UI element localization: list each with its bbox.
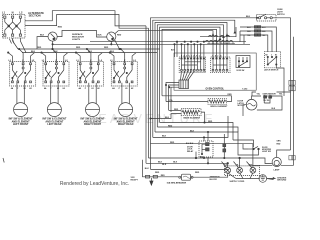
svg-text:LEFT FRONT: LEFT FRONT (13, 123, 29, 126)
wire ERC inner link right (213, 64, 227, 66)
wire drops into enclosure left (175, 42, 178, 57)
terminal block TB2 (alternate section) (3, 15, 26, 39)
svg-text:BLK: BLK (158, 162, 163, 164)
svg-text:RED: RED (168, 125, 173, 127)
svg-text:RED: RED (195, 172, 200, 174)
wire latch motor bottom (243, 105, 246, 116)
svg-text:4A: 4A (112, 87, 115, 90)
wire y41.7 to J2 (239, 31, 241, 42)
switch S8 (door switch in control) (236, 56, 250, 68)
wire run y122.5 (160, 123, 233, 141)
svg-text:GROUND: GROUND (277, 180, 287, 182)
svg-text:BLK BLK: BLK BLK (186, 143, 194, 145)
svg-text:BLK: BLK (246, 16, 251, 18)
svg-text:LEFT REAR: LEFT REAR (47, 123, 61, 126)
svg-text:BLK: BLK (40, 35, 45, 37)
inline connector right rails (289, 156, 295, 160)
wire bake right lead (201, 112, 205, 122)
wire diagonals into screws (222, 162, 252, 168)
wire N feed to bus (13, 38, 18, 49)
junction (18, 48, 19, 49)
svg-text:RED: RED (161, 175, 166, 177)
svg-text:GRN: GRN (277, 141, 282, 143)
svg-text:BLK: BLK (165, 117, 170, 119)
wire J2 left leads (240, 27, 254, 35)
svg-text:NC: NC (275, 55, 278, 57)
inline connector pair right of relay (223, 134, 226, 158)
wire lamp bottom horizontal (252, 37, 293, 166)
wire supply diagonals (228, 173, 260, 179)
pin P3 ERC (187, 44, 189, 71)
junction (176, 41, 177, 42)
junction (41, 52, 42, 53)
svg-text:BGOVYWRT: BGOVYWRT (181, 55, 201, 57)
svg-text:LAMP: LAMP (274, 169, 281, 172)
relay K1 (door lock relay) (199, 141, 213, 157)
svg-text:L2: L2 (19, 11, 23, 15)
junction (86, 48, 87, 49)
junction (8, 52, 9, 53)
svg-text:RED: RED (58, 27, 63, 29)
wire element lead right (57, 83, 59, 104)
wire nested loop 4 (157, 25, 223, 127)
svg-text:RED: RED (155, 172, 160, 174)
wire light switch to right rail (272, 18, 290, 150)
wire nested loop 1 (151, 18, 257, 142)
receptacle J3 (146, 175, 158, 185)
svg-text:N: N (12, 11, 14, 15)
surface element E2 (47, 103, 61, 117)
pin PR4 ERC (223, 57, 225, 71)
svg-text:RED: RED (174, 109, 179, 111)
ERC connector box right (211, 57, 230, 73)
wire feed P S2 (52, 49, 56, 63)
pin P1 ERC (181, 44, 183, 71)
pin PR5 ERC (226, 57, 228, 71)
circuit breaker CB1 (15A mini-breaker) (179, 174, 193, 180)
connector J2 (harness BLK/RED/YEL) (254, 26, 260, 37)
pin PR3 ERC (219, 57, 221, 71)
junction (75, 52, 76, 53)
svg-text:L1: L1 (8, 60, 11, 62)
svg-text:RED: RED (277, 144, 281, 146)
pin P4 ERC (190, 44, 192, 71)
wire feed L1 S1 (8, 53, 12, 63)
svg-text:4A: 4A (11, 87, 14, 90)
svg-text:15A MINI-BREAKER: 15A MINI-BREAKER (167, 182, 187, 185)
svg-text:RED: RED (170, 142, 175, 144)
wire J2 right leads (261, 27, 277, 52)
wire cross y36.7 (200, 27, 236, 37)
svg-text:BLK: BLK (173, 161, 178, 163)
switch S6 (latch switch) (264, 52, 280, 68)
junction (203, 157, 204, 158)
junction (109, 52, 110, 53)
junction (165, 84, 166, 85)
junction (227, 163, 229, 165)
switch S7 (door mounted light switch) (248, 146, 259, 149)
chassis ground G1 (259, 175, 275, 183)
svg-text:BAKE ELEMENT: BAKE ELEMENT (184, 117, 201, 120)
wire nested loop 3 (155, 23, 227, 133)
svg-text:LATCH SWITCH: LATCH SWITCH (264, 69, 279, 72)
wire feed L1 S4 (110, 53, 114, 63)
wire run y127 (157, 127, 238, 132)
svg-text:L1: L1 (76, 60, 79, 62)
svg-text:H2: H2 (63, 88, 65, 90)
wire run y151.6 (195, 152, 197, 158)
connector pairs oven sensor (264, 96, 272, 99)
terminal block TB1 (225, 166, 260, 176)
svg-text:P: P (85, 88, 87, 90)
wire nested loop 2 (153, 20, 235, 137)
wire bus BLK y52.6 (22, 52, 157, 54)
infinite switch S4 (111, 62, 137, 86)
svg-text:P: P (17, 88, 19, 90)
wire feed L1 S2 (42, 53, 46, 63)
svg-text:4A: 4A (44, 87, 47, 90)
junction (169, 87, 170, 88)
wire breaker out (193, 173, 228, 177)
svg-text:Rendered by LeadVenture, Inc.: Rendered by LeadVenture, Inc. (60, 181, 129, 187)
svg-text:LIGHT SW: LIGHT SW (262, 151, 271, 153)
wire element lead right (95, 83, 97, 104)
svg-text:T-1/50: T-1/50 (242, 89, 247, 91)
wire DS1 bottom (52, 41, 54, 49)
wire run y169.4 (151, 168, 228, 170)
surface element E4 (119, 103, 133, 117)
junction (207, 131, 208, 132)
wire feed L2 S2 (64, 53, 68, 63)
wire DS1 to DS3 (57, 31, 106, 38)
oven control enclosure (174, 53, 256, 90)
svg-text:OVEN CONTROL: OVEN CONTROL (206, 89, 225, 91)
wire bus upper y41.7 (90, 41, 246, 43)
wire supply stubs (10, 39, 15, 44)
svg-text:H2: H2 (97, 88, 99, 90)
wire run y132 (155, 132, 259, 155)
svg-text:RED: RED (37, 47, 42, 49)
wire L1 feed staircase to bundle (25, 11, 146, 26)
svg-text:YEL: YEL (279, 93, 283, 95)
junction (111, 44, 112, 45)
wire receptacle feed (143, 160, 179, 177)
junction (52, 48, 53, 49)
svg-text:L1: L1 (2, 11, 6, 15)
svg-text:BLK: BLK (98, 35, 103, 37)
wire broil left lead (166, 101, 208, 103)
wire feed P S4 (121, 49, 125, 63)
wire relay feeds top (204, 132, 208, 141)
wire y44.3 to J2 (243, 35, 245, 44)
wire broil right lead (162, 96, 232, 102)
wire latch sw to door latch (276, 65, 284, 96)
wire bake left lead RED (169, 110, 182, 112)
infinite switch S3 (78, 62, 104, 86)
wire ERC inner link left 2 (185, 61, 201, 63)
svg-text:BLK: BLK (145, 168, 150, 170)
junction (174, 44, 175, 45)
svg-text:BLK: BLK (31, 51, 36, 53)
wire to DS1 left (37, 37, 48, 49)
junction (52, 44, 53, 45)
indicator light DS1 (left surface indicator) (48, 32, 57, 41)
wire door latch loop (252, 96, 282, 110)
wire hops row 2 (208, 43, 235, 44)
junction (150, 118, 151, 119)
svg-text:H1: H1 (125, 88, 127, 90)
svg-text:BLK: BLK (190, 130, 195, 132)
wire run y158 (149, 158, 272, 168)
pin P2 ERC (184, 44, 186, 71)
wire sensor pair stubs (264, 95, 270, 103)
junction (224, 157, 225, 158)
wire feed P S3 (87, 49, 91, 63)
svg-text:L1: L1 (110, 60, 113, 62)
wire ERC inner link left (182, 64, 198, 66)
wire feed L2 S1 (31, 53, 35, 63)
wire relay bottoms (204, 157, 208, 163)
wire lamp top (277, 150, 291, 157)
wire door sw feeds (233, 140, 254, 149)
svg-text:RED: RED (104, 47, 109, 49)
wire J1 feeds from ERC (181, 71, 195, 80)
wire run y137.4 (153, 116, 228, 137)
svg-text:BLK: BLK (162, 164, 167, 166)
pin P6 ERC (197, 44, 199, 71)
connector arrows on nested drops (212, 32, 235, 42)
svg-text:LIGHTS: LIGHTS (72, 39, 81, 41)
wire feed L1 S3 (76, 53, 80, 63)
wire element lead left (121, 83, 123, 104)
svg-text:BRYW: BRYW (212, 55, 223, 57)
pin PR1 ERC (212, 57, 214, 71)
svg-text:SUPPLY CORD: SUPPLY CORD (230, 181, 245, 183)
svg-text:H1: H1 (91, 88, 93, 90)
svg-text:4A: 4A (79, 87, 82, 90)
wire element lead left (16, 83, 18, 104)
pin PR2 ERC (216, 57, 218, 71)
svg-text:BROIL ELEMENT: BROIL ELEMENT (211, 106, 229, 108)
svg-text:H2: H2 (29, 88, 31, 90)
svg-text:YEL: YEL (257, 93, 261, 95)
wire feed P S1 (19, 49, 23, 63)
wire L2 feed staircase to bundle (25, 15, 149, 29)
wire nested loop 6 (162, 29, 217, 95)
indicator light DS3 (right surface indicator) (107, 32, 116, 41)
infinite switch S2 (43, 62, 69, 86)
infinite switch S1 (10, 62, 36, 86)
wire bundle vertical L1 (145, 26, 147, 163)
surface element E3 (86, 103, 100, 117)
wire bus upper y44.3 (53, 43, 250, 45)
svg-text:BLOCK: BLOCK (210, 179, 218, 181)
wire DS3 bottom stub (110, 41, 112, 44)
svg-text:BLK: BLK (162, 136, 167, 138)
wire L feed to bus (20, 38, 26, 53)
svg-text:MOTOR: MOTOR (238, 105, 246, 107)
svg-text:DOOR SW: DOOR SW (237, 70, 245, 72)
wire DS3 to bus diagonal (115, 40, 120, 49)
junction (195, 157, 197, 159)
junction (119, 48, 120, 49)
bake element R1 (181, 109, 201, 116)
svg-text:RED: RED (76, 47, 81, 49)
svg-text:P: P (119, 88, 121, 90)
wire riser x151 (150, 144, 152, 170)
connector J1 (ribbon) (179, 80, 189, 89)
junction (120, 48, 121, 49)
svg-text:SWITCH: SWITCH (277, 14, 285, 16)
wire element lead right (128, 83, 130, 104)
svg-text:RECEPT: RECEPT (131, 179, 139, 181)
junction (207, 163, 208, 164)
svg-text:RIGHT FRONT: RIGHT FRONT (84, 123, 102, 126)
surface element E1 (14, 103, 28, 117)
wire bus RED y49 (18, 48, 160, 50)
wire bake left lead BLK (151, 114, 182, 119)
svg-text:RIGHT REAR: RIGHT REAR (118, 123, 134, 126)
junction (239, 157, 241, 159)
door latch motor M1 (246, 99, 257, 110)
wire run y143.7 (151, 142, 253, 168)
svg-text:H2: H2 (131, 88, 133, 90)
wire element lead left (88, 83, 90, 104)
svg-text:RED: RED (117, 35, 122, 37)
junction (203, 137, 204, 138)
oven sensor inline connectors (289, 80, 295, 91)
wire J1 left leads (166, 83, 179, 113)
pin P7 ERC (200, 44, 202, 71)
svg-text:SECTION: SECTION (29, 14, 41, 18)
wire element lead left (50, 83, 52, 104)
wire bundle vertical L2 (148, 28, 150, 158)
wire hops row 3 (209, 35, 230, 36)
pin P8 ERC (203, 44, 205, 71)
wire stub left margin (3, 158, 4, 163)
junction (52, 48, 53, 49)
svg-text:L1: L1 (42, 60, 45, 62)
broil element R2 (208, 99, 227, 105)
wire nested loop 5 (160, 27, 220, 122)
wire element lead right (23, 83, 25, 104)
ERC connector box left (179, 57, 205, 73)
svg-text:RED: RED (228, 94, 233, 96)
wire from DS3 right to ERC (115, 31, 213, 58)
pin P5 ERC (194, 44, 196, 71)
lamp DS2 (oven lamp) (272, 157, 281, 166)
wire feed L2 S4 (132, 53, 136, 63)
svg-text:OVEN SENSOR: OVEN SENSOR (263, 93, 277, 95)
wire feed L2 S3 (98, 53, 102, 63)
switch S5 (oven light switch) (257, 14, 277, 21)
svg-text:W: W (237, 164, 239, 166)
wire run y163.3 (146, 163, 228, 168)
wire hops row 1 (206, 40, 233, 41)
wire sensor leads (252, 85, 293, 96)
junction dots on buses at pin drops (181, 41, 205, 45)
svg-text:RELAY: RELAY (187, 150, 194, 153)
